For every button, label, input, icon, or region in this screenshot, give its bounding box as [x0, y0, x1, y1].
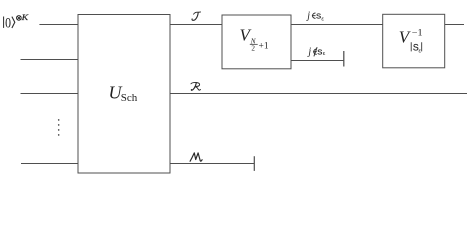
wire q4 left [21, 163, 78, 165]
wire j not in S [291, 60, 344, 62]
gate V^{-1}_{|S_eps|} [383, 14, 445, 68]
terminator bar j not in S [343, 51, 345, 67]
wire q3 left [21, 93, 79, 95]
gate U_Sch [78, 15, 170, 174]
node R wire [170, 93, 467, 95]
node R label [191, 82, 201, 90]
svg-text:−1: −1 [412, 28, 423, 38]
output wire right [445, 24, 464, 26]
gate V_{N/2+1} [222, 15, 291, 69]
vdots [58, 119, 60, 136]
label j not in S_eps [306, 46, 325, 57]
svg-text:S: S [316, 11, 321, 20]
node M wire [170, 163, 254, 165]
ket label |0>^{⊗K} [4, 13, 29, 31]
svg-text:ε: ε [419, 48, 422, 54]
svg-text:0: 0 [5, 15, 11, 31]
label j in S_eps [305, 10, 324, 22]
svg-text:S: S [317, 47, 322, 56]
node M label [190, 153, 202, 161]
wire q1 left [39, 24, 78, 26]
node J label [192, 12, 201, 20]
wire j in S [291, 24, 383, 26]
svg-text:Sch: Sch [121, 92, 138, 104]
svg-text:ε: ε [323, 51, 326, 57]
svg-text:2: 2 [251, 44, 255, 52]
svg-text:+1: +1 [259, 42, 269, 52]
svg-text:ε: ε [321, 16, 324, 22]
wire q2 left [21, 59, 79, 61]
terminator bar M [253, 156, 255, 171]
node J wire [170, 24, 222, 26]
svg-text:K: K [20, 13, 29, 22]
